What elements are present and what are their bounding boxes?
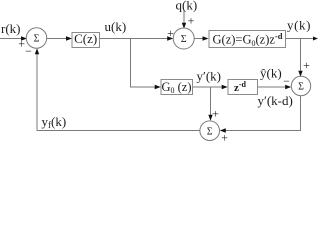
svg-text:−: − <box>283 74 290 88</box>
svg-text:+: + <box>303 58 310 72</box>
svg-text:−: − <box>25 44 32 58</box>
svg-text:G0 (z): G0 (z) <box>161 80 191 95</box>
svg-text:+: + <box>221 131 228 144</box>
svg-text:+: + <box>212 107 219 121</box>
svg-text:Σ: Σ <box>34 34 40 45</box>
svg-text:G(z)=G0(z)z-d: G(z)=G0(z)z-d <box>213 31 283 48</box>
svg-text:r(k): r(k) <box>1 21 21 36</box>
svg-text:Σ: Σ <box>298 82 304 93</box>
svg-text:q(k): q(k) <box>176 0 198 13</box>
svg-text:u(k): u(k) <box>105 19 127 34</box>
svg-text:yf(k): yf(k) <box>42 114 67 130</box>
svg-text:y′(k): y′(k) <box>197 69 222 84</box>
svg-text:Σ: Σ <box>181 34 187 45</box>
svg-text:y′(k-d): y′(k-d) <box>258 93 293 108</box>
svg-text:Σ: Σ <box>207 126 213 137</box>
svg-text:y(k): y(k) <box>287 18 311 33</box>
svg-text:+: + <box>188 14 195 28</box>
svg-text:+: + <box>167 26 174 40</box>
svg-text:ŷ(k): ŷ(k) <box>260 66 282 81</box>
svg-text:C(z): C(z) <box>74 31 97 46</box>
